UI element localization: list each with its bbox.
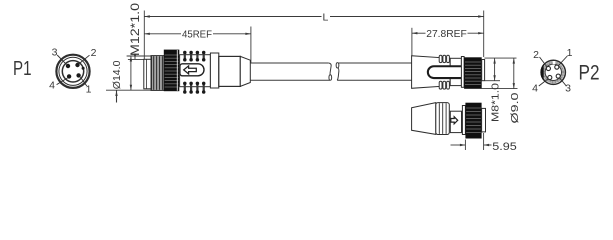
svg-text:5.95: 5.95 xyxy=(492,141,517,153)
svg-text:3: 3 xyxy=(52,46,58,58)
svg-text:1: 1 xyxy=(567,47,573,59)
svg-text:P1: P1 xyxy=(13,57,32,80)
svg-text:45REF: 45REF xyxy=(182,29,212,41)
svg-text:M12*1.0: M12*1.0 xyxy=(130,3,142,56)
svg-text:3: 3 xyxy=(565,83,571,95)
svg-text:Ø9.0: Ø9.0 xyxy=(509,92,521,123)
svg-text:1: 1 xyxy=(86,83,92,95)
svg-text:Ø14.0: Ø14.0 xyxy=(111,60,123,89)
svg-text:2: 2 xyxy=(91,47,97,59)
svg-text:27.8REF: 27.8REF xyxy=(426,28,467,40)
svg-text:L: L xyxy=(322,11,328,23)
svg-text:4: 4 xyxy=(532,83,538,95)
svg-text:2: 2 xyxy=(533,49,539,61)
svg-text:M8*1.0: M8*1.0 xyxy=(489,83,501,122)
svg-text:4: 4 xyxy=(49,80,55,92)
svg-text:P2: P2 xyxy=(579,62,600,85)
